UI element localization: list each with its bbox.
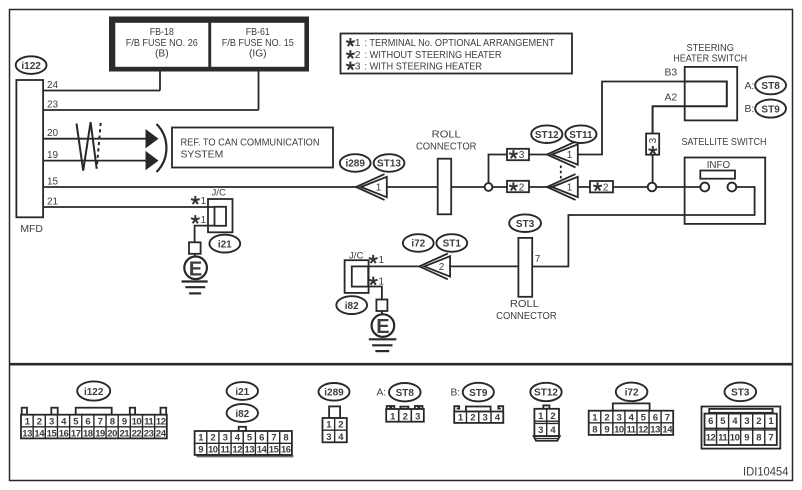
svg-text:ST3: ST3 [516,219,535,230]
svg-text:ROLL: ROLL [510,299,539,310]
connector label i122 (pinout) [77,381,110,400]
connector label ST8 (pinout) [389,383,421,401]
svg-text:B:: B: [451,388,461,399]
svg-text:STEERING: STEERING [686,43,734,54]
connector label ST1 [436,234,467,252]
svg-text:ST3: ST3 [731,388,750,399]
svg-text:9: 9 [744,432,749,443]
fuse box block FB-18 / FB-61 [109,17,309,72]
svg-text:10: 10 [730,432,740,443]
connector label i289 (pinout) [319,383,350,401]
svg-text:14: 14 [662,424,673,435]
svg-text:: TERMINAL No. OPTIONAL ARRANG: : TERMINAL No. OPTIONAL ARRANGEMENT [365,38,556,49]
svg-text:13: 13 [650,424,660,435]
ROLL CONNECTOR upper label [416,130,477,153]
svg-text:11: 11 [220,445,230,456]
connector label ST9 (pinout) [463,383,494,402]
svg-text:1: 1 [567,150,573,161]
ROLL CONNECTOR lower label [496,299,557,322]
svg-text:MFD: MFD [20,224,43,235]
J/C joint connector i82 [345,260,369,293]
svg-text:14: 14 [257,445,268,456]
fuse FB-61 label [222,27,294,60]
svg-text:12: 12 [232,445,242,456]
svg-text:1: 1 [567,183,573,194]
option box *3 vertical [646,134,659,155]
junction node B [648,183,657,192]
svg-text:9: 9 [122,416,127,427]
wire pin 23 [43,109,258,111]
connector i72 pinout body [589,403,674,435]
svg-text:J/C: J/C [212,188,226,199]
separator line [10,363,793,366]
wire pin 21 to J/C [43,206,214,208]
wire branch up from junction A [489,155,508,188]
svg-text:3: 3 [49,416,54,427]
svg-text:12: 12 [638,424,648,435]
svg-text:ST13: ST13 [377,159,401,170]
arrowhead pin 19 [146,151,159,170]
option box *2 lower branch [507,181,529,194]
svg-text:F/B FUSE NO. 26: F/B FUSE NO. 26 [126,38,198,49]
wire pin 19 (CAN) [43,160,147,162]
svg-text:2: 2 [37,416,42,427]
wire ST11 triangle to steering heater switch B3 [577,82,685,155]
svg-text:i289: i289 [324,388,344,399]
wire pin 15 main line [43,186,356,188]
svg-text:13: 13 [22,428,32,439]
svg-text:21: 21 [47,197,59,208]
svg-text:3: 3 [648,137,659,143]
svg-text:IDI10454: IDI10454 [743,467,789,479]
connector label ST9 [755,100,786,118]
connector label i72 (pinout) [616,383,648,402]
svg-text:14: 14 [34,428,45,439]
svg-text:CONNECTOR: CONNECTOR [416,141,477,152]
svg-text:B3: B3 [665,68,678,79]
svg-text:FB-61: FB-61 [246,27,270,38]
svg-text:1: 1 [768,416,774,427]
ground E circle i21 [184,254,207,281]
label *1 upper (J/C i82) [369,255,378,263]
svg-text:18: 18 [83,428,93,439]
svg-text:A:: A: [745,81,755,92]
svg-text:8: 8 [756,432,761,443]
label *1 lower (J/C i82) [369,277,378,285]
connector symbol triangle 1 lower (ST11/ST12) [547,174,578,200]
wire right contact to roll connector 2 [532,187,754,267]
twisted pair symbol [77,122,101,171]
svg-text:10: 10 [132,416,142,427]
svg-text:(B): (B) [155,49,169,60]
svg-text:ROLL: ROLL [432,130,461,141]
svg-text:2: 2 [439,262,445,273]
connector label ST8 [755,76,786,94]
svg-text:2: 2 [519,182,525,193]
connector label i122 [16,56,47,74]
svg-text:i122: i122 [21,61,41,72]
switch contact left [700,183,709,192]
svg-text:9: 9 [198,445,203,456]
connector label ST3 (pinout) [725,383,757,402]
svg-text:2: 2 [470,413,475,424]
STEERING HEATER SWITCH label [673,43,747,65]
connector label ST13 [374,154,405,172]
svg-text:7: 7 [535,254,541,265]
svg-text:4: 4 [732,416,738,427]
svg-text:2: 2 [355,50,361,61]
svg-text:5: 5 [720,416,726,427]
svg-text:F/B FUSE NO. 15: F/B FUSE NO. 15 [222,38,294,49]
svg-text:i122: i122 [84,387,104,398]
arc bracket [157,124,167,172]
switch contact right [728,183,737,192]
svg-text:13: 13 [245,445,255,456]
svg-text:10: 10 [614,424,624,435]
connector ST9 pinout body [454,406,503,423]
svg-text:2: 2 [210,433,215,444]
label *1 lower (J/C i21) [191,215,200,223]
REF. TO CAN COMMUNICATION SYSTEM box [172,128,333,168]
svg-text:15: 15 [47,177,59,188]
ground E circle i82 [372,311,395,338]
svg-text:2: 2 [550,411,555,422]
wire triangle 2 to roll connector 2 [449,265,518,267]
svg-text:FB-18: FB-18 [150,27,174,38]
svg-text:INFO: INFO [707,160,731,171]
note legend box [341,34,573,74]
svg-text:7: 7 [665,412,670,423]
svg-text:1: 1 [201,215,207,226]
connector label i72 [403,234,434,252]
svg-text:16: 16 [281,445,291,456]
svg-text:ST12: ST12 [535,130,559,141]
svg-text:ST8: ST8 [396,388,415,399]
svg-text:SYSTEM: SYSTEM [181,150,224,161]
svg-text:8: 8 [283,433,288,444]
roll connector 1 bar [438,159,452,215]
svg-text:3: 3 [355,61,361,72]
svg-text:8: 8 [110,416,115,427]
svg-text:1: 1 [201,196,207,207]
connector symbol triangle 1 (i289/ST13) [356,174,387,200]
svg-text:SATELLITE SWITCH: SATELLITE SWITCH [682,137,767,148]
wire J/C i82 to triangle 2 [368,265,420,267]
svg-text:i21: i21 [218,239,232,250]
svg-text:i72: i72 [625,388,639,399]
connector label i289 [340,154,371,172]
svg-text:24: 24 [156,428,167,439]
connector label ST12 (pinout) [530,383,561,401]
svg-text:16: 16 [59,428,69,439]
svg-text:2: 2 [604,412,609,423]
wire triangle1 to roll connector [386,186,438,188]
wire J/C i82 to ground [368,287,382,300]
wire pin 20 (CAN) [43,138,147,140]
svg-text:22: 22 [132,428,142,439]
svg-text:E: E [189,258,202,280]
connector symbol triangle 1 upper (ST11/ST12) [547,142,578,168]
svg-text:2: 2 [403,411,408,422]
connector symbol triangle 2 (i72/ST1) [419,254,450,280]
svg-text:i82: i82 [235,409,249,420]
svg-text:ST8: ST8 [761,81,780,92]
svg-text:20: 20 [107,428,117,439]
svg-text:2: 2 [603,182,609,193]
svg-text:i289: i289 [345,159,365,170]
svg-text:ST9: ST9 [761,104,780,115]
wire *3 down to junction B [652,155,654,183]
svg-text:1: 1 [355,38,361,49]
svg-text:CONNECTOR: CONNECTOR [496,311,557,322]
wire fuse FB-18 to pin 24 [159,72,161,91]
fuse FB-18 label [126,27,198,60]
svg-text:i82: i82 [345,301,359,312]
junction node A [485,183,493,191]
svg-text:15: 15 [269,445,280,456]
svg-text:7: 7 [271,433,276,444]
connector ST3 pinout body [702,407,781,449]
svg-text:21: 21 [120,428,131,439]
svg-text:20: 20 [47,128,59,139]
svg-text:: WITHOUT STEERING HEATER: : WITHOUT STEERING HEATER [365,50,502,61]
J/C joint connector i21 [208,188,233,233]
svg-text:23: 23 [144,428,154,439]
arrowhead pin 20 [146,129,159,148]
svg-text:19: 19 [47,150,59,161]
svg-text:11: 11 [626,424,636,435]
svg-text:11: 11 [144,416,154,427]
connector label ST12 [531,125,562,143]
ground symbol i82 [369,339,397,351]
roll connector 2 bar [518,238,532,297]
svg-text:B:: B: [745,104,755,115]
connector i122 pinout body [22,408,167,415]
connector i21/i82 pinout body [195,427,294,457]
svg-text:3: 3 [519,150,525,161]
connector label i21 [209,235,240,253]
svg-text:12: 12 [156,416,166,427]
svg-text:1: 1 [379,255,385,266]
svg-text:3: 3 [483,413,488,424]
svg-text:E: E [376,316,389,338]
ground terminal square i21 [189,242,201,254]
connector label i82 (pinout) [227,404,258,422]
svg-text:3: 3 [617,412,622,423]
ground symbol i21 [182,282,208,294]
svg-text:ST1: ST1 [443,239,462,250]
svg-text:7: 7 [98,416,103,427]
svg-text:17: 17 [71,428,81,439]
wire junction B to left contact [656,186,700,188]
svg-text:3: 3 [326,432,331,443]
wire pin 24 [43,90,160,92]
label *1 upper (J/C i21) [191,196,200,204]
steering heater switch internal wire + A2 wire to *3 [653,82,727,134]
svg-text:i72: i72 [411,239,425,250]
satellite switch box [685,158,766,224]
svg-text:23: 23 [47,100,59,111]
svg-text:6: 6 [85,416,90,427]
steering heater switch box [685,67,738,121]
svg-text:8: 8 [592,424,597,435]
ground terminal square i82 [376,300,387,312]
svg-text:A:: A: [377,388,387,399]
svg-text:REF. TO CAN COMMUNICATION: REF. TO CAN COMMUNICATION [181,138,320,149]
INFO button rect [700,171,735,179]
svg-text:2: 2 [338,420,343,431]
svg-text:9: 9 [604,424,609,435]
svg-text:12: 12 [706,432,716,443]
option box *2 right [590,181,613,193]
svg-text:A2: A2 [665,93,678,104]
svg-text:i21: i21 [235,387,249,398]
svg-text:6: 6 [259,433,264,444]
wire *3 to triangle ST11 [529,154,548,156]
connector ST12 pinout body [534,405,560,440]
svg-text:1: 1 [376,183,382,194]
svg-text:24: 24 [47,80,59,91]
svg-text:6: 6 [653,412,658,423]
connector i289 pinout body [323,406,347,442]
svg-text:3: 3 [415,411,420,422]
svg-text:19: 19 [95,428,105,439]
connector ST8 pinout body [386,406,424,422]
connector label i82 [336,296,367,314]
connector label ST3 [509,214,541,232]
svg-text:(IG): (IG) [249,49,267,60]
svg-text:11: 11 [718,432,728,443]
svg-text:3: 3 [223,433,228,444]
svg-text:7: 7 [768,432,773,443]
svg-text:3: 3 [744,416,749,427]
svg-text:10: 10 [208,445,218,456]
svg-text:HEATER SWITCH: HEATER SWITCH [673,54,747,65]
wire J/C i21 to ground [195,226,215,243]
svg-text:ST12: ST12 [534,388,558,399]
svg-text:6: 6 [708,416,713,427]
svg-text:3: 3 [538,425,543,436]
connector label ST11 [565,125,596,143]
svg-text:2: 2 [756,416,761,427]
dashed link between switch triangles [560,166,562,179]
svg-text:ST9: ST9 [469,388,488,399]
connector label i21 (pinout) [227,382,258,400]
option box *3 upper branch [507,149,529,161]
MFD unit connector box [16,80,43,235]
svg-text:: WITH STEERING HEATER: : WITH STEERING HEATER [365,61,483,72]
wire fuse FB-61 to pin 23 [258,72,260,111]
wire roll connector to junction [451,186,652,188]
svg-text:15: 15 [47,428,58,439]
svg-text:ST11: ST11 [569,130,593,141]
